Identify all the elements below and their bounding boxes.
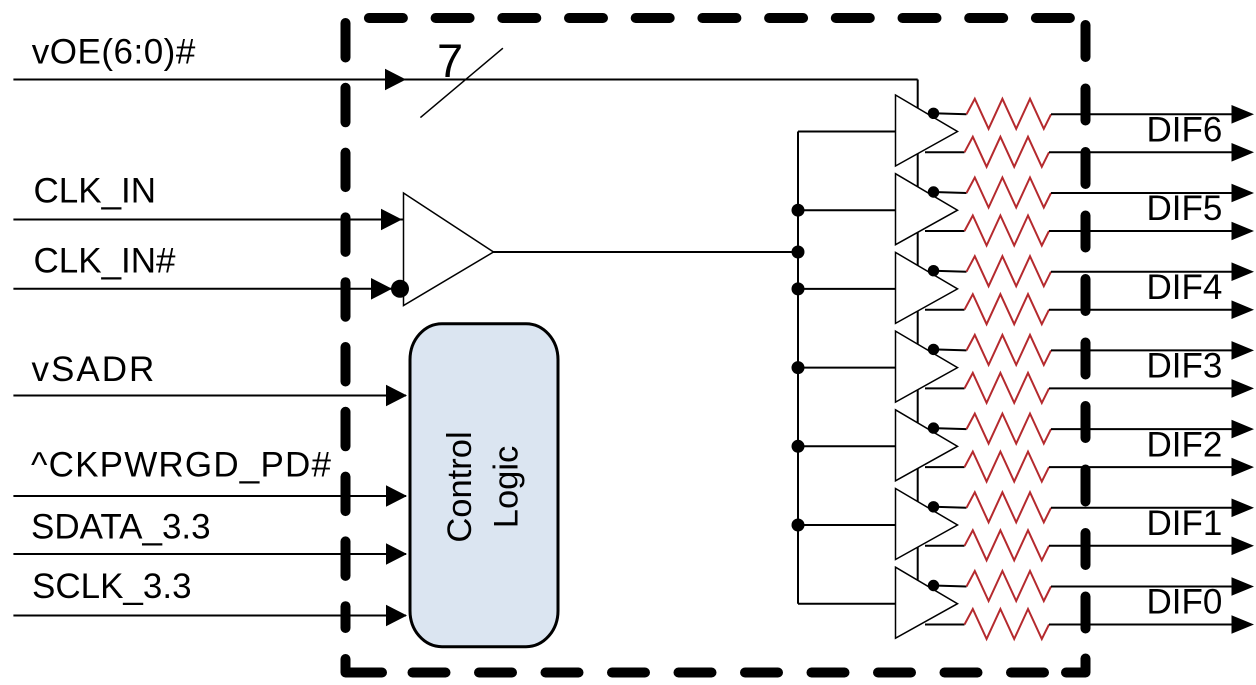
svg-text:DIF2: DIF2 bbox=[1147, 425, 1223, 464]
wire clock branch to DIF1 buffer bbox=[798, 524, 896, 526]
wire clock branch to DIF3 buffer bbox=[798, 367, 896, 369]
resistor DIF2 true series R bbox=[965, 452, 1050, 482]
dashed box top border bbox=[369, 13, 1080, 23]
label Control Logic bbox=[441, 431, 526, 542]
wire DIF2 true to resistor bbox=[925, 466, 965, 468]
svg-text:DIF4: DIF4 bbox=[1147, 268, 1223, 307]
svg-text:SCLK_3.3: SCLK_3.3 bbox=[32, 567, 192, 606]
svg-text:^CKPWRGD_PD#: ^CKPWRGD_PD# bbox=[31, 446, 332, 485]
wire CLK_IN bbox=[13, 219, 403, 221]
resistor DIF3 true series R bbox=[965, 373, 1050, 403]
svg-text:CLK_IN#: CLK_IN# bbox=[34, 242, 177, 281]
junction dot CLK_IN# inverting input bbox=[391, 280, 409, 298]
wire DIF6 true to resistor bbox=[925, 151, 965, 153]
wire vSADR bbox=[13, 395, 406, 397]
wire DIF3 complement to resistor bbox=[934, 349, 967, 350]
input buffer U1 bbox=[404, 193, 494, 306]
wire clock branch to DIF0 buffer bbox=[798, 603, 896, 605]
svg-text:DIF0: DIF0 bbox=[1147, 583, 1223, 622]
wire DIF5 complement to resistor bbox=[934, 192, 967, 193]
wire DIF0 true output bbox=[1049, 624, 1236, 626]
wire vOE vertical enable bus bbox=[917, 80, 919, 601]
junction dot branch DIF5 bbox=[792, 204, 805, 217]
clock distribution bus bbox=[797, 132, 799, 604]
resistor DIF1 true series R bbox=[965, 530, 1050, 560]
arrowhead DIF5 true bbox=[1232, 222, 1255, 241]
wire DIF4 complement to resistor bbox=[934, 271, 967, 272]
wire DIF0 complement to resistor bbox=[934, 586, 967, 587]
wire DIF2 complement to resistor bbox=[934, 428, 967, 429]
resistor DIF3 complement series R bbox=[967, 335, 1052, 365]
wire DIF5 true output bbox=[1049, 230, 1236, 232]
arrowhead SCLK_3.3 bbox=[386, 605, 407, 627]
svg-text:Logic: Logic bbox=[488, 446, 526, 528]
arrowhead SDATA_3.3 bbox=[386, 543, 407, 565]
output buffer DIF5 bbox=[896, 174, 958, 245]
wire clock branch to DIF4 buffer bbox=[798, 288, 896, 290]
svg-text:DIF1: DIF1 bbox=[1147, 504, 1223, 543]
output buffer DIF0 bbox=[896, 567, 958, 638]
complement tap dot DIF1 bbox=[928, 501, 939, 512]
wire DIF4 complement output bbox=[1051, 271, 1236, 273]
output buffer DIF3 bbox=[896, 331, 958, 402]
wire DIF5 complement output bbox=[1051, 192, 1236, 194]
arrowhead DIF4 complement bbox=[1232, 262, 1255, 281]
arrowhead DIF3 true bbox=[1232, 379, 1255, 398]
complement tap dot DIF4 bbox=[928, 265, 939, 276]
dashed box bottom border bbox=[413, 668, 1045, 678]
arrowhead CLK_IN# bbox=[371, 278, 392, 300]
junction dot branch DIF4 bbox=[792, 282, 805, 295]
wire clock branch to DIF5 buffer bbox=[798, 209, 896, 211]
wire DIF6 true output bbox=[1049, 151, 1236, 153]
arrowhead vSADR bbox=[386, 385, 407, 407]
complement tap dot DIF3 bbox=[928, 344, 939, 355]
arrowhead vOE bbox=[385, 69, 406, 91]
resistor DIF5 complement series R bbox=[967, 178, 1052, 208]
arrowhead DIF2 true bbox=[1232, 458, 1255, 477]
svg-text:SDATA_3.3: SDATA_3.3 bbox=[31, 508, 211, 547]
svg-text:7: 7 bbox=[437, 34, 463, 87]
wire DIF3 complement output bbox=[1051, 349, 1236, 351]
wire vOE(6:0)# input bbox=[13, 79, 917, 81]
complement tap dot DIF0 bbox=[928, 580, 939, 591]
resistor DIF4 complement series R bbox=[967, 256, 1052, 286]
dashed box left border bbox=[341, 23, 351, 628]
wire clock output bbox=[494, 251, 799, 253]
complement tap dot DIF5 bbox=[928, 186, 939, 197]
wire DIF5 true to resistor bbox=[925, 230, 965, 232]
svg-text:DIF3: DIF3 bbox=[1147, 347, 1223, 386]
dashed box bottom-left corner bbox=[346, 659, 383, 673]
arrowhead DIF6 complement bbox=[1232, 105, 1255, 124]
arrowhead DIF3 complement bbox=[1232, 341, 1255, 360]
wire DIF6 complement output bbox=[1051, 113, 1236, 115]
wire DIF1 complement to resistor bbox=[934, 507, 967, 508]
wire DIF1 complement output bbox=[1051, 507, 1236, 509]
arrowhead DIF1 complement bbox=[1232, 499, 1255, 518]
wire DIF4 true to resistor bbox=[925, 309, 965, 311]
output buffer DIF4 bbox=[896, 252, 958, 323]
svg-text:CLK_IN: CLK_IN bbox=[34, 172, 157, 211]
arrowhead CLK_IN bbox=[381, 209, 402, 231]
arrowhead DIF2 complement bbox=[1232, 420, 1255, 439]
wire SCLK_3.3 bbox=[13, 615, 406, 617]
arrowhead DIF5 complement bbox=[1232, 184, 1255, 203]
wire DIF3 true output bbox=[1049, 387, 1236, 389]
output buffer DIF1 bbox=[896, 489, 958, 560]
wire DIF2 complement output bbox=[1051, 428, 1236, 430]
wire DIF0 complement output bbox=[1051, 586, 1236, 588]
wire DIF4 true output bbox=[1049, 309, 1236, 311]
wire DIF1 true to resistor bbox=[925, 545, 965, 547]
svg-text:vOE(6:0)#: vOE(6:0)# bbox=[32, 33, 196, 72]
arrowhead DIF0 true bbox=[1232, 615, 1255, 634]
wire DIF6 complement to resistor bbox=[934, 113, 967, 114]
wire DIF3 true to resistor bbox=[925, 387, 965, 389]
wire clock branch to DIF2 buffer bbox=[798, 445, 896, 447]
svg-text:Control: Control bbox=[441, 431, 479, 542]
wire CLK_IN# bbox=[13, 288, 403, 290]
wire SDATA_3.3 bbox=[13, 553, 406, 555]
junction dot branch DIF3 bbox=[792, 361, 805, 374]
resistor DIF4 true series R bbox=[965, 294, 1050, 324]
output buffer DIF6 bbox=[896, 95, 958, 166]
complement tap dot DIF2 bbox=[928, 422, 939, 433]
junction dot branch DIF2 bbox=[792, 440, 805, 453]
junction dot branch DIF1 bbox=[792, 519, 805, 532]
wire DIF1 true output bbox=[1049, 545, 1236, 547]
arrowhead DIF6 true bbox=[1232, 143, 1255, 162]
dashed box bottom-right corner bbox=[1066, 659, 1086, 673]
resistor DIF1 complement series R bbox=[967, 492, 1052, 522]
wire ^CKPWRGD_PD# bbox=[13, 495, 406, 497]
output buffer DIF2 bbox=[896, 410, 958, 481]
bus-width slash bbox=[420, 48, 503, 117]
wire DIF0 true to resistor bbox=[925, 624, 965, 626]
resistor DIF6 complement series R bbox=[967, 99, 1052, 129]
arrowhead ^CKPWRGD_PD# bbox=[386, 485, 407, 507]
arrowhead DIF0 complement bbox=[1232, 577, 1255, 596]
svg-text:vSADR: vSADR bbox=[32, 350, 157, 389]
junction dot clock bus bbox=[792, 246, 805, 259]
wire DIF2 true output bbox=[1049, 466, 1236, 468]
dashed box right border bbox=[1081, 25, 1091, 629]
resistor DIF5 true series R bbox=[965, 216, 1050, 246]
control logic block bbox=[410, 324, 558, 647]
svg-text:DIF5: DIF5 bbox=[1147, 189, 1223, 228]
arrowhead DIF1 true bbox=[1232, 537, 1255, 556]
wire clock branch to DIF6 buffer bbox=[798, 131, 896, 133]
resistor DIF2 complement series R bbox=[967, 414, 1052, 444]
svg-text:DIF6: DIF6 bbox=[1147, 111, 1223, 150]
resistor DIF6 true series R bbox=[965, 137, 1050, 167]
complement tap dot DIF6 bbox=[928, 108, 939, 119]
resistor DIF0 complement series R bbox=[967, 571, 1052, 601]
resistor DIF0 true series R bbox=[965, 609, 1050, 639]
arrowhead DIF4 true bbox=[1232, 300, 1255, 319]
